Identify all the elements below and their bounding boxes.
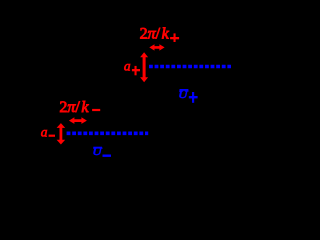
arrow 2pi/k+ (horizontal double arrow) (149, 44, 164, 50)
arrow a+ (vertical double arrow) (140, 52, 148, 82)
label Ubar+ overline (180, 89, 189, 91)
label Ubar+ plus (192, 92, 194, 103)
dashed level U- (67, 132, 149, 136)
label 2pi/k+ subscript plus (174, 33, 176, 42)
label Ubar- overline (93, 147, 102, 149)
label 2pi/k- subscript minus (92, 109, 100, 111)
arrow a- (vertical double arrow) (57, 123, 66, 144)
label Ubar- minus (103, 155, 112, 157)
label a- minus (49, 135, 55, 137)
svg-text:2π/k: 2π/k (59, 99, 89, 116)
svg-text:a: a (124, 58, 131, 73)
arrow 2pi/k- (horizontal double arrow) (69, 117, 87, 124)
svg-text:a: a (41, 125, 48, 140)
dashed level U+ (149, 65, 231, 69)
svg-text:2π/k: 2π/k (140, 25, 170, 42)
label a+ subscript plus (135, 66, 137, 75)
